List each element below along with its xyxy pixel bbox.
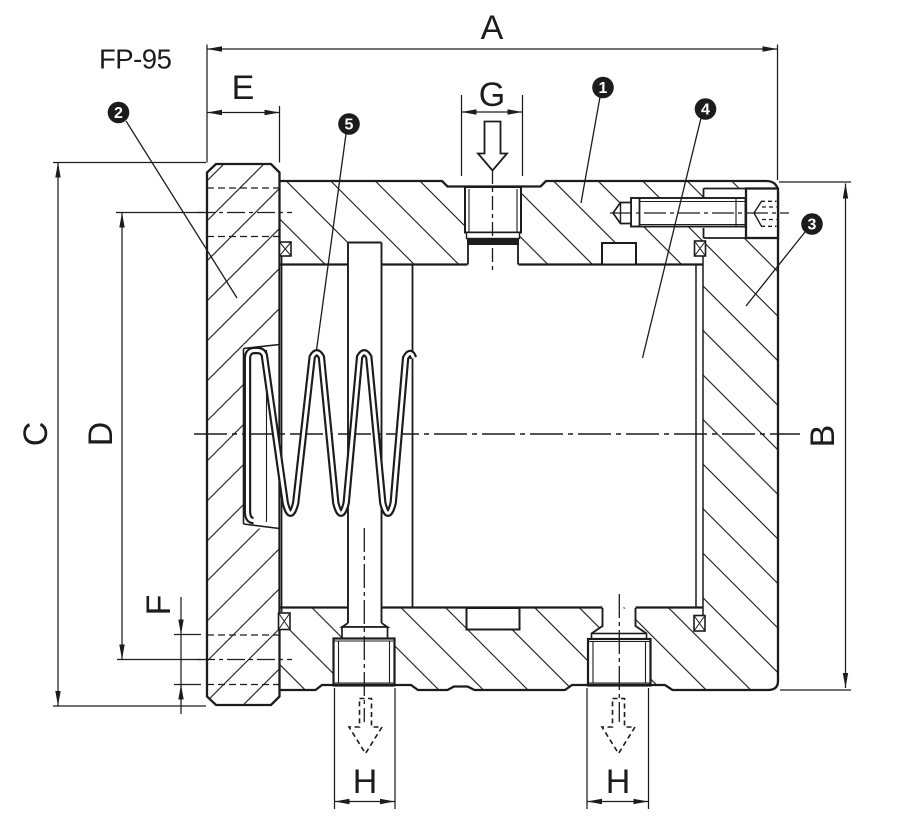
flange (end cap 2) hatched section (207, 164, 280, 705)
bolt pocket (704, 189, 779, 239)
svg-text:F: F (140, 595, 178, 616)
bolt cone point (613, 203, 631, 224)
G port gasket (467, 239, 519, 246)
dimension F (174, 597, 201, 714)
seal bottom-left (279, 613, 291, 630)
svg-text:B: B (804, 425, 842, 448)
rod flare and neck (342, 623, 388, 639)
bottom hole centerline (197, 659, 292, 661)
port 1 plug (334, 639, 395, 686)
dimension A (207, 45, 778, 181)
bolt head (746, 189, 778, 239)
barrel left end face (281, 256, 283, 612)
callout 1 (581, 77, 614, 203)
dimension C (53, 163, 206, 707)
flange hidden hole lines top (207, 188, 280, 685)
svg-text:G: G (479, 76, 505, 114)
G port centerline (492, 170, 494, 272)
port 1 centerline (363, 528, 365, 722)
main centerline (194, 433, 800, 435)
seal top-left (280, 242, 292, 256)
rod through spring chamber (348, 243, 382, 624)
dimension H left (335, 688, 396, 809)
callout 3 (746, 213, 823, 306)
spring 5 (248, 351, 414, 521)
dimension E (207, 106, 280, 163)
svg-text:E: E (232, 69, 255, 107)
seal bottom-right (694, 616, 705, 632)
dimension G (462, 95, 523, 176)
dimension H right (587, 688, 649, 809)
svg-text:4: 4 (701, 102, 710, 119)
svg-text:FP-95: FP-95 (99, 44, 172, 75)
flange outline (207, 164, 280, 705)
svg-text:H: H (353, 763, 378, 801)
svg-text:2: 2 (114, 105, 123, 122)
svg-text:3: 3 (808, 217, 817, 234)
bore bottom line (281, 606, 703, 608)
barrel right inner face (702, 256, 704, 616)
port 2 plug (588, 639, 651, 686)
top wall notch (602, 243, 636, 265)
body (barrel) hatched section (280, 181, 779, 690)
dashed flow arrow right (602, 699, 635, 754)
callout 4 (643, 98, 717, 358)
svg-text:D: D (82, 422, 120, 447)
bolt centerline (610, 212, 789, 214)
dimension B (779, 182, 851, 690)
callout 5 (317, 113, 360, 350)
svg-text:1: 1 (599, 80, 608, 97)
svg-text:C: C (17, 422, 55, 447)
dimension D (116, 213, 204, 660)
bottom wall notch (467, 608, 520, 630)
G port plug (465, 187, 521, 239)
G port bore (468, 245, 518, 265)
dashed flow arrow left (349, 699, 382, 754)
port 2 centerline (618, 594, 620, 722)
top hole centerline (197, 212, 292, 214)
bore top line (281, 263, 704, 265)
piston right face (695, 265, 697, 608)
spring pocket in flange (244, 345, 280, 529)
flow arrow at G (478, 122, 507, 171)
seal top-right (695, 241, 706, 256)
svg-text:5: 5 (345, 117, 354, 134)
piston 4 left face (412, 265, 414, 608)
svg-text:H: H (606, 763, 631, 801)
bolt shaft (631, 198, 746, 227)
svg-text:A: A (481, 9, 504, 47)
port 2 bore and flare (592, 608, 647, 639)
callout 2 (108, 102, 237, 298)
body outline (280, 181, 779, 690)
